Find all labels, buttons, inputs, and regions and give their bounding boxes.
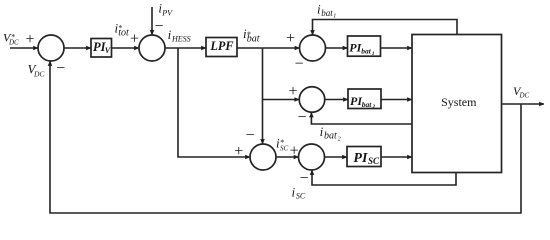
svg-text:i: i [292, 184, 296, 199]
svg-text:HESS: HESS [171, 34, 191, 43]
svg-text:−: − [299, 170, 308, 187]
svg-text:+: + [25, 31, 34, 48]
svg-text:DC: DC [519, 92, 530, 100]
svg-text:+: + [290, 143, 299, 160]
svg-text:−: − [154, 18, 163, 35]
svg-text:1: 1 [372, 51, 375, 57]
svg-text:tot: tot [118, 28, 129, 39]
svg-text:bat: bat [362, 100, 373, 109]
svg-text:bat: bat [247, 33, 260, 44]
svg-text:−: − [245, 127, 254, 144]
svg-text:bat: bat [324, 131, 337, 142]
svg-text:V: V [105, 46, 111, 55]
svg-text:i: i [320, 124, 324, 139]
svg-text:System: System [441, 95, 477, 109]
svg-text:2: 2 [371, 104, 375, 110]
svg-text:−: − [56, 60, 65, 77]
svg-text:+: + [130, 31, 139, 48]
svg-text:−: − [297, 109, 306, 126]
svg-text:SC: SC [280, 144, 289, 152]
svg-text:PI: PI [353, 151, 368, 166]
svg-text:−: − [294, 56, 303, 73]
svg-text:i: i [168, 27, 172, 42]
svg-text:LPF: LPF [209, 39, 233, 53]
svg-text:bat: bat [361, 47, 372, 56]
svg-text:SC: SC [368, 156, 380, 166]
svg-text:2: 2 [338, 136, 341, 142]
svg-text:DC: DC [33, 69, 45, 78]
svg-text:PV: PV [161, 9, 173, 18]
svg-text:+: + [288, 83, 297, 100]
svg-text:1: 1 [333, 14, 336, 20]
svg-text:+: + [286, 30, 295, 47]
svg-text:SC: SC [296, 192, 306, 201]
svg-text:DC: DC [8, 38, 19, 46]
svg-text:+: + [234, 143, 243, 160]
svg-text:bat: bat [321, 8, 333, 18]
